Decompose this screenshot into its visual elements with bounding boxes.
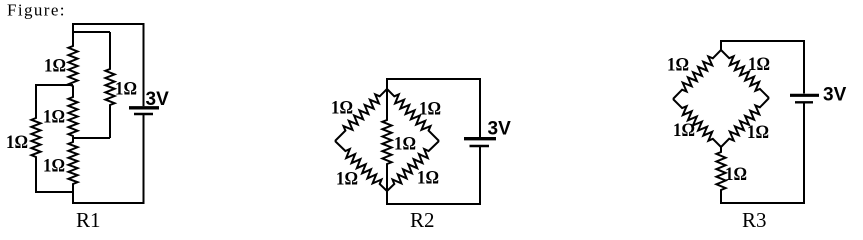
resistor R1d 1ohm (left branch) (31, 85, 40, 192)
wire R3 top stub (720, 40, 722, 51)
battery V2 short plate (470, 145, 490, 148)
wire R1 top (node A to battery +) (72, 23, 145, 25)
svg-text:1Ω: 1Ω (115, 79, 137, 100)
resistor R3d 1ohm (bottom-right bridge arm) (721, 98, 769, 147)
resistor R3b 1ohm (top-right bridge arm) (721, 50, 769, 98)
resistor R1c 1ohm (bottom of series chain) (68, 138, 77, 203)
wire R1 inner top (node A to parallel branch) (72, 31, 110, 33)
resistor R2c 1ohm (bottom-left bridge arm) (335, 141, 387, 191)
battery V3 short plate (795, 101, 813, 103)
wire R2 bottom stub (386, 190, 388, 205)
svg-text:1Ω: 1Ω (336, 169, 358, 190)
resistor R1e 1ohm (parallel branch) (105, 32, 114, 138)
resistor R3e 1ohm (bottom series resistor) (716, 147, 725, 203)
wire R3 top (node T to battery +) (720, 40, 805, 42)
svg-text:3V: 3V (146, 89, 170, 110)
svg-text:1Ω: 1Ω (419, 99, 441, 120)
resistor R1a 1ohm (top of series chain) (68, 24, 77, 86)
resistor R2b 1ohm (top-right bridge arm) (387, 89, 439, 141)
resistor R3a 1ohm (top-left bridge arm) (673, 50, 721, 99)
battery V3 long plate (790, 94, 819, 97)
svg-text:1Ω: 1Ω (667, 55, 689, 76)
resistor R1b 1ohm (middle of series chain) (68, 86, 77, 139)
svg-text:Figure:: Figure: (7, 1, 66, 20)
wire R2 top stub (386, 78, 388, 90)
svg-text:1Ω: 1Ω (331, 98, 353, 119)
wire node B to left branch (35, 84, 73, 86)
wire R2 top (node T to battery +) (386, 78, 481, 80)
wire battery V1 negative lead (143, 115, 145, 204)
svg-text:1Ω: 1Ω (44, 56, 66, 77)
wire battery V3 negative lead (803, 104, 805, 204)
svg-text:1Ω: 1Ω (747, 122, 769, 143)
svg-text:R1: R1 (76, 208, 101, 232)
svg-text:1Ω: 1Ω (43, 107, 65, 128)
wire R1 bottom return (72, 202, 145, 204)
svg-text:1Ω: 1Ω (748, 54, 770, 75)
resistor R2e 1ohm (middle bridge resistor) (382, 89, 391, 191)
wire node C to parallel branch bottom (73, 137, 110, 139)
svg-text:3V: 3V (488, 119, 512, 140)
battery V2 long plate (464, 137, 496, 140)
svg-text:3V: 3V (823, 85, 847, 106)
battery V1 long plate (129, 106, 159, 109)
svg-text:1Ω: 1Ω (673, 120, 695, 141)
wire R3 bottom return (720, 202, 805, 204)
wire left branch bottom to node D (35, 191, 73, 193)
svg-text:1Ω: 1Ω (725, 164, 747, 185)
battery V1 short plate (134, 113, 153, 116)
svg-text:R3: R3 (742, 208, 767, 232)
svg-text:1Ω: 1Ω (417, 168, 439, 189)
svg-text:1Ω: 1Ω (6, 132, 28, 153)
wire battery V3 positive lead (803, 41, 805, 94)
wire R2 bottom return (386, 203, 481, 205)
wire battery V2 negative lead (479, 147, 481, 204)
svg-text:1Ω: 1Ω (43, 156, 65, 177)
wire battery V2 positive lead (479, 79, 481, 137)
svg-text:1Ω: 1Ω (394, 134, 416, 155)
resistor R2d 1ohm (bottom-right bridge arm) (387, 141, 439, 191)
wire battery V1 positive lead (143, 24, 145, 106)
resistor R3c 1ohm (bottom-left bridge arm) (673, 99, 721, 147)
svg-text:R2: R2 (410, 208, 435, 232)
resistor R2a 1ohm (top-left bridge arm) (335, 89, 387, 141)
